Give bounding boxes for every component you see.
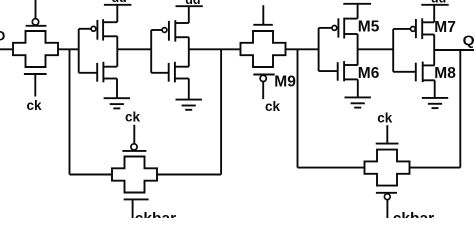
- svg-text:M6: M6: [358, 65, 380, 82]
- svg-text:ck: ck: [125, 110, 141, 125]
- svg-text:dd: dd: [431, 0, 446, 6]
- svg-text:M9: M9: [274, 73, 296, 90]
- svg-text:ckbar: ckbar: [135, 210, 176, 218]
- svg-text:dd: dd: [112, 0, 127, 5]
- svg-text:M5: M5: [358, 19, 380, 36]
- svg-text:ck: ck: [265, 99, 281, 114]
- svg-text:D: D: [0, 27, 5, 43]
- svg-text:ck: ck: [26, 98, 42, 113]
- svg-text:M8: M8: [434, 65, 456, 82]
- svg-text:Q: Q: [463, 32, 474, 48]
- svg-text:dd: dd: [185, 0, 200, 7]
- svg-text:ck: ck: [377, 110, 393, 125]
- svg-text:M7: M7: [434, 19, 456, 36]
- svg-text:ckbar: ckbar: [393, 210, 434, 218]
